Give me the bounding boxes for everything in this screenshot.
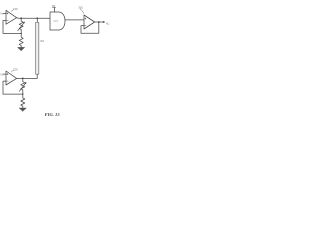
svg-text:220: 220 bbox=[13, 68, 18, 72]
svg-text:V₁: V₁ bbox=[0, 13, 3, 16]
svg-text:302: 302 bbox=[40, 40, 45, 43]
svg-text:50: 50 bbox=[52, 4, 56, 8]
svg-text:V₂: V₂ bbox=[0, 73, 3, 76]
svg-text:523: 523 bbox=[54, 19, 59, 23]
svg-text:310: 310 bbox=[78, 6, 83, 10]
svg-text:210: 210 bbox=[13, 7, 18, 11]
svg-text:FIG. 15: FIG. 15 bbox=[45, 112, 61, 117]
